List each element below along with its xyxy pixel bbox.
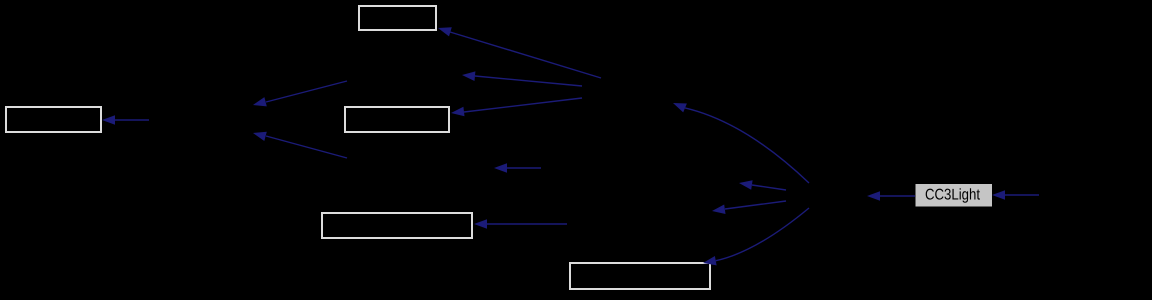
- edge E13: CC3Light to hub1 hidden node: [867, 191, 915, 201]
- class box middle (unlabeled): [345, 107, 449, 132]
- edge E12: hub1 curve down to bottom box: [703, 208, 809, 265]
- edge E2: hub2 to hidden node above middle box: [462, 71, 582, 86]
- edge E4: hidden node to hidden node (upper-left fan): [253, 81, 347, 106]
- edge E3: hub2 to middle box: [451, 98, 582, 116]
- edge E9: hub1 curve up to hub2 corner: [673, 103, 809, 183]
- class box far-left (unlabeled): [6, 107, 101, 132]
- svg-text:CC3Light: CC3Light: [925, 186, 981, 203]
- edge E5: hidden node to hidden node (lower-left fan): [253, 132, 347, 158]
- edge E7: short arrow between hidden nodes: [494, 163, 541, 173]
- node CC3Light (current class, grey): [916, 184, 993, 207]
- class box bottom (unlabeled): [570, 263, 710, 289]
- edge E10: hub1 to hidden node: [739, 180, 786, 190]
- edge E6: hidden node to far-left box: [102, 115, 149, 125]
- edge E1: hub2 to top box: [438, 27, 601, 78]
- edge E14: hidden right node to CC3Light: [992, 190, 1039, 200]
- class box top (unlabeled): [359, 6, 436, 30]
- edge E8: hidden node to mid-bottom box: [474, 219, 567, 229]
- edge E11: hub1 to hidden node: [712, 201, 786, 214]
- class box mid-bottom (unlabeled): [322, 213, 472, 238]
